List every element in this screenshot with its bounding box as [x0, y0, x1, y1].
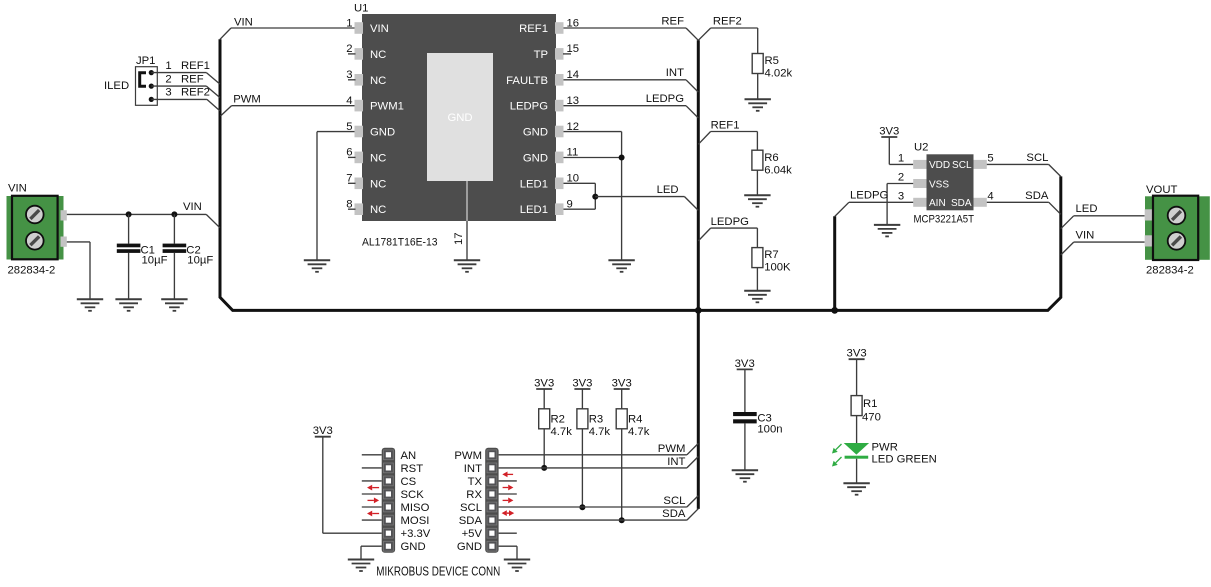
ground R1 LED [843, 483, 869, 495]
svg-text:REF2: REF2 [181, 87, 210, 99]
arrow MISO out [368, 498, 380, 504]
U1 pin 9 LED1 [520, 199, 573, 217]
svg-text:100n: 100n [757, 423, 782, 435]
svg-text:3V3: 3V3 [313, 425, 333, 437]
svg-text:R7: R7 [764, 249, 778, 261]
svg-text:MISO: MISO [401, 502, 430, 514]
power 3V3 for U2 [879, 126, 899, 138]
svg-text:5: 5 [987, 152, 993, 164]
U1 pin 14 FAULTB [506, 69, 579, 87]
mikrobus right pin SCL [460, 496, 698, 514]
wire U1 pin12 GND [564, 132, 622, 260]
connector mikrobus host header left [382, 448, 395, 553]
svg-text:LEDPG: LEDPG [850, 189, 888, 201]
wire bus LEDPG-vertical [833, 216, 836, 310]
power 3V3 for R4 [612, 378, 632, 390]
svg-text:LED1: LED1 [520, 204, 548, 216]
wire VIN from bus to VOUT [1061, 230, 1145, 255]
svg-text:U2: U2 [914, 142, 928, 154]
svg-text:GND: GND [457, 541, 482, 553]
svg-text:RST: RST [401, 463, 424, 475]
svg-text:10µF: 10µF [142, 255, 168, 267]
wire LEDPG from U1 pin13 to bus [564, 93, 699, 118]
svg-text:R1: R1 [863, 398, 877, 410]
junction R4 [619, 517, 625, 523]
U1 pin 6 NC [346, 147, 386, 165]
svg-text:6.04k: 6.04k [764, 165, 792, 177]
svg-text:R3: R3 [589, 414, 603, 426]
wire SDA from U2 pin4 to bus [987, 190, 1061, 214]
U1 pin 12 GND [523, 121, 579, 139]
svg-text:LED GREEN: LED GREEN [872, 454, 937, 466]
U1 pin 4 PWM1 [346, 95, 404, 113]
svg-text:NC: NC [370, 204, 386, 216]
svg-text:282834-2: 282834-2 [8, 265, 56, 277]
wire U1 pin10 LED1 [564, 183, 596, 209]
svg-text:4.7k: 4.7k [628, 426, 650, 438]
power 3V3 for mikrobus [313, 425, 333, 437]
svg-text:VIN: VIN [370, 23, 389, 35]
power 3V3 for R1 [847, 348, 867, 360]
resistor R5 4.02k [752, 54, 792, 100]
ground U2 [874, 225, 900, 237]
junction R3 [579, 504, 585, 510]
svg-text:2: 2 [898, 172, 904, 184]
svg-text:17: 17 [453, 232, 465, 245]
svg-text:R2: R2 [551, 414, 565, 426]
junction LED [592, 194, 598, 200]
svg-text:VIN: VIN [1076, 230, 1095, 242]
wire VIN to U1 pin1 [220, 17, 355, 40]
junction C1 [126, 211, 132, 217]
svg-text:1: 1 [165, 60, 171, 72]
svg-text:R5: R5 [765, 55, 779, 67]
resistor R7 100K [752, 248, 791, 291]
connector VOUT terminal 282834-2 [1145, 184, 1210, 277]
svg-text:VOUT: VOUT [1146, 184, 1177, 196]
wire terminal pin2 to ground [67, 242, 90, 299]
svg-text:LEDPG: LEDPG [711, 216, 749, 228]
wire REF1 from bus to R6 [698, 120, 757, 151]
svg-text:SDA: SDA [662, 508, 686, 520]
svg-text:JP1: JP1 [136, 55, 155, 67]
svg-text:VDD: VDD [929, 160, 950, 171]
ground C3 [732, 470, 758, 482]
svg-text:NC: NC [370, 75, 386, 87]
svg-text:VIN: VIN [183, 201, 202, 213]
svg-text:U1: U1 [354, 3, 368, 15]
svg-text:INT: INT [666, 67, 684, 79]
mikrobus left pin +3.3V [323, 528, 431, 540]
svg-text:3V3: 3V3 [572, 378, 592, 390]
mikrobus right pin +5V [462, 528, 517, 540]
svg-text:REF2: REF2 [713, 16, 742, 28]
U1 pin 17 exposed pad [453, 181, 467, 260]
ground U1 pad [454, 260, 480, 272]
svg-text:3V3: 3V3 [879, 126, 899, 138]
ground U1 pins 11-12 [608, 260, 634, 272]
junction bus-middle [695, 307, 702, 314]
mikrobus left pin CS [362, 476, 417, 488]
ground U1 pin5 [304, 260, 330, 272]
svg-text:ILED: ILED [104, 80, 129, 92]
U1 pin 13 LEDPG [510, 95, 579, 113]
junction pin11-pin12 [619, 155, 625, 161]
U1 pin 5 GND [346, 121, 395, 139]
wire LED from bus to VOUT [1061, 203, 1145, 229]
ground R6 [744, 195, 770, 207]
junction C2 [171, 211, 177, 217]
wire U2 pin2 VSS to ground [887, 172, 913, 225]
svg-text:4.7k: 4.7k [551, 426, 573, 438]
svg-text:AL1781T16E-13: AL1781T16E-13 [362, 237, 438, 249]
svg-text:+3.3V: +3.3V [401, 528, 431, 540]
svg-text:LEDPG: LEDPG [646, 93, 684, 105]
U1 pin 3 NC [346, 69, 386, 87]
svg-text:TX: TX [468, 476, 483, 488]
svg-text:GND: GND [523, 127, 548, 139]
svg-text:470: 470 [862, 412, 881, 424]
mikrobus left pin RST [362, 463, 423, 475]
ground R7 [744, 291, 770, 303]
svg-text:VIN: VIN [8, 183, 27, 195]
connector VIN terminal 282834-2 [7, 183, 67, 277]
JP1 pin 3 [149, 97, 154, 102]
arrow SDA bidir [502, 510, 515, 516]
svg-text:RX: RX [466, 489, 482, 501]
svg-text:PWR: PWR [872, 442, 898, 454]
U1 pin 1 VIN [346, 17, 389, 35]
resistor R3 4.7k [577, 389, 611, 507]
wire bus middle-vertical [697, 40, 700, 509]
mikrobus left pin AN [362, 450, 416, 462]
svg-text:PWM: PWM [233, 93, 261, 105]
capacitor C3 100n [733, 369, 782, 470]
mikrobus left pin SCK [362, 489, 424, 501]
svg-text:VIN: VIN [234, 17, 253, 29]
wire 3V3 to +3.3V pin [322, 437, 324, 534]
U1 pin 15 TP [534, 43, 580, 61]
U1 pin 10 LED1 [520, 173, 579, 191]
wire INT from U1 pin14 to bus [564, 67, 699, 92]
U1 pin 7 NC [346, 173, 386, 191]
svg-text:3V3: 3V3 [612, 378, 632, 390]
ground mikrobus left [348, 560, 374, 572]
svg-text:2: 2 [165, 73, 171, 85]
wire REF1 from JP1-1 to bus [151, 60, 220, 84]
wire U1 pin5 GND [317, 132, 355, 260]
svg-text:SCL: SCL [952, 160, 972, 171]
svg-text:3V3: 3V3 [735, 358, 755, 370]
arrow MOSI in [367, 511, 379, 517]
ground terminal VIN [77, 299, 103, 311]
svg-text:4.02k: 4.02k [765, 68, 793, 80]
svg-text:R6: R6 [764, 152, 778, 164]
wire LEDPG from bus to R7 [698, 216, 757, 248]
mikrobus left pin MOSI [362, 515, 430, 527]
wire U1 pin11 GND [564, 157, 622, 159]
wire LEDPG to U2 pin3 AIN [835, 189, 913, 216]
U1 pin 2 NC [346, 43, 386, 61]
svg-text:GND: GND [370, 127, 395, 139]
svg-text:SDA: SDA [951, 198, 972, 209]
svg-text:R4: R4 [628, 414, 642, 426]
svg-text:SDA: SDA [459, 515, 483, 527]
svg-text:INT: INT [464, 463, 482, 475]
svg-text:GND: GND [447, 112, 472, 124]
power 3V3 for C3 [735, 358, 755, 370]
svg-text:REF1: REF1 [711, 120, 740, 132]
wire VIN from terminal to bus [67, 201, 220, 228]
mikrobus right pin TX [468, 476, 517, 488]
mikrobus right pin PWM [454, 443, 698, 461]
mikrobus right pin GND [457, 541, 517, 559]
svg-text:AN: AN [401, 450, 417, 462]
mikrobus left pin MISO [362, 502, 430, 514]
svg-text:AIN: AIN [929, 198, 946, 209]
wire REF2 from JP1-3 to bus [151, 87, 220, 111]
arrow SCK in [367, 485, 379, 491]
connector JP1 jumper ILED select [104, 55, 157, 105]
mikrobus right pin INT [464, 457, 699, 475]
svg-text:REF: REF [661, 16, 684, 28]
svg-text:PWM1: PWM1 [370, 101, 404, 113]
svg-text:+5V: +5V [462, 528, 483, 540]
junction R2 [541, 465, 547, 471]
wire bus left-vertical and bottom-horizontal [220, 39, 1061, 310]
wire SCL from U2 pin5 to bus [987, 152, 1061, 177]
svg-text:PWM: PWM [658, 443, 686, 455]
svg-text:LED1: LED1 [520, 178, 548, 190]
mikrobus right pin SDA [459, 509, 699, 527]
svg-text:REF: REF [181, 73, 204, 85]
wire REF from JP1-2 to bus [151, 73, 220, 97]
wire 3V3 to U2 pin1 [889, 137, 913, 164]
wire U1 pin9 LED1 [564, 208, 596, 210]
svg-text:SCL: SCL [663, 495, 685, 507]
ground R5 [745, 99, 771, 111]
svg-text:TP: TP [534, 49, 548, 61]
svg-text:3: 3 [165, 87, 171, 99]
svg-text:MIKROBUS DEVICE CONN: MIKROBUS DEVICE CONN [376, 565, 500, 579]
svg-text:3: 3 [898, 190, 904, 202]
ground C2 [161, 299, 187, 311]
svg-text:LED: LED [657, 184, 679, 196]
IC U1 AL1781T16E-13 LED driver body [354, 3, 556, 249]
power 3V3 for R2 [534, 378, 554, 390]
svg-text:REF1: REF1 [181, 60, 210, 72]
resistor R6 6.04k [752, 150, 792, 195]
svg-text:3V3: 3V3 [534, 378, 554, 390]
svg-text:NC: NC [370, 178, 386, 190]
svg-text:INT: INT [667, 456, 685, 468]
wire PWM to U1 pin4 [221, 93, 355, 116]
LED PWR green [832, 442, 937, 483]
svg-text:LEDPG: LEDPG [510, 101, 548, 113]
ground mikrobus right [504, 560, 530, 572]
arrow SCL out [503, 498, 514, 504]
JP1 pin 2 [149, 84, 154, 89]
svg-text:GND: GND [523, 152, 548, 164]
junction bus-LEDPG [831, 307, 838, 314]
svg-text:SCL: SCL [460, 502, 482, 514]
wire REF from U1 pin16 to bus [564, 16, 699, 41]
wire REF2 from bus to R5 [698, 16, 757, 54]
U1 pin 8 NC [346, 199, 386, 217]
capacitor C2 10uF [163, 214, 214, 299]
svg-text:NC: NC [370, 49, 386, 61]
capacitor C1 10uF [117, 214, 168, 299]
ground C1 [115, 299, 141, 311]
svg-text:PWM: PWM [454, 450, 482, 462]
svg-text:SCL: SCL [1026, 152, 1048, 164]
U1 pin 16 REF1 [519, 17, 579, 35]
svg-text:LED: LED [1076, 203, 1098, 215]
svg-text:10µF: 10µF [187, 255, 213, 267]
resistor R2 4.7k [539, 389, 573, 468]
svg-text:REF1: REF1 [519, 23, 548, 35]
resistor R1 470 [851, 359, 881, 443]
svg-text:3V3: 3V3 [847, 348, 867, 360]
power 3V3 for R3 [572, 378, 592, 390]
U1 pin 11 GND [523, 147, 578, 165]
svg-text:MOSI: MOSI [401, 515, 430, 527]
svg-text:NC: NC [370, 152, 386, 164]
connector mikrobus device header right [485, 448, 498, 553]
svg-text:SDA: SDA [1025, 190, 1049, 202]
IC U2 MCP3221A5T ADC body [913, 142, 987, 226]
resistor R4 4.7k [616, 389, 650, 520]
svg-text:1: 1 [898, 152, 904, 164]
mikrobus left pin GND [361, 541, 426, 559]
svg-text:4.7k: 4.7k [589, 426, 611, 438]
svg-text:282834-2: 282834-2 [1146, 265, 1194, 277]
svg-text:CS: CS [401, 476, 417, 488]
svg-text:100K: 100K [764, 262, 791, 274]
svg-text:SCK: SCK [401, 489, 425, 501]
mikrobus right pin RX [466, 489, 517, 501]
JP1 pin 1 [149, 70, 154, 75]
svg-text:VSS: VSS [929, 179, 949, 190]
svg-text:FAULTB: FAULTB [506, 75, 548, 87]
svg-text:MCP3221A5T: MCP3221A5T [914, 213, 975, 225]
wire LED to bus [595, 184, 698, 210]
arrow RX out [503, 485, 514, 491]
svg-text:GND: GND [401, 541, 426, 553]
arrow TX in [502, 472, 513, 478]
svg-text:4: 4 [987, 190, 993, 202]
